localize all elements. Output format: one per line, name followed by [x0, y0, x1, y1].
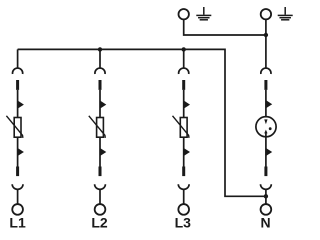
wire L1 lower [17, 137, 19, 166]
plug contact arc bottom L1 [12, 184, 23, 189]
terminal L3 circle [178, 204, 189, 215]
wire L3 drop from bus [183, 49, 185, 68]
wire N upper electrode lead [265, 90, 267, 122]
wire L2 drop from bus [99, 49, 101, 68]
wire N stem to terminal [265, 189, 267, 204]
varistor L1 box [14, 118, 21, 138]
wire L2 upper [99, 90, 101, 118]
contact pin bar bottom L3 [182, 167, 185, 177]
wire L1 drop from bus [17, 49, 19, 68]
wire L1 upper [17, 90, 19, 118]
spark gap bottom electrode arrow [264, 130, 267, 134]
node A (PE bus joins N branch) [264, 33, 268, 37]
plug contact arc top N [261, 68, 271, 74]
wire L2 stem to terminal [99, 189, 101, 204]
contact pin bar top L1 [16, 80, 19, 90]
disconnect arrow L2 upper [100, 101, 106, 109]
terminal L2 circle [95, 204, 106, 215]
wire L1 stem to terminal [17, 189, 19, 204]
spark gap top electrode arrow [264, 119, 267, 124]
disconnect arrow L1 lower [18, 148, 24, 156]
contact pin bar top L3 [182, 80, 185, 90]
wire L2 lower [99, 137, 101, 166]
wire PE1 stem to junction on N column [184, 19, 266, 35]
wire PE2 stem down into N branch [265, 19, 267, 68]
svg-text:L1: L1 [9, 214, 26, 230]
terminal L1 circle [12, 204, 23, 215]
svg-text:L3: L3 [175, 214, 192, 230]
contact pin bar bottom L1 [16, 167, 19, 177]
svg-text:N: N [260, 214, 270, 230]
spark gap gas dot [269, 127, 272, 130]
ground (earth symbol next to PE2) [278, 7, 293, 20]
wire L3 stem to terminal [183, 189, 185, 204]
terminal PE1 (top circle above L3) [179, 9, 189, 19]
disconnect arrow L1 upper [18, 101, 24, 109]
wire L3 upper [183, 90, 185, 118]
wire N lower electrode lead [265, 133, 267, 167]
spark gap (gas discharge tube) circle N [256, 117, 276, 137]
disconnect arrow N upper [266, 100, 272, 108]
disconnect arrow L3 upper [184, 101, 190, 109]
plug contact arc bottom L2 [95, 184, 106, 189]
varistor L1 diagonal [6, 116, 23, 138]
contact pin bar top N [264, 80, 267, 90]
varistor L2 diagonal [89, 116, 106, 138]
plug contact arc bottom N [261, 184, 272, 189]
wire L3 lower [183, 137, 185, 166]
varistor L3 diagonal [173, 116, 190, 138]
plug contact arc top L2 [95, 68, 105, 74]
ground (earth symbol next to PE1) [196, 7, 211, 20]
contact pin bar bottom N [264, 167, 267, 177]
disconnect arrow L2 lower [100, 148, 106, 156]
plug contact arc top L3 [179, 68, 189, 74]
varistor L3 box [180, 118, 187, 138]
terminal PE2 (top right circle above N) [261, 9, 271, 19]
plug contact arc bottom L3 [178, 184, 189, 189]
node C (bus at L3) [182, 47, 186, 51]
disconnect arrow N lower [266, 148, 272, 156]
node B (bus at L2) [98, 47, 102, 51]
svg-text:L2: L2 [91, 214, 108, 230]
wire main bus across L1 L2 L3 and down to N stem [18, 49, 266, 196]
contact pin bar bottom L2 [99, 167, 102, 177]
plug contact arc top L1 [13, 68, 23, 74]
contact pin bar top L2 [99, 80, 102, 90]
varistor L2 box [97, 118, 104, 138]
terminal N circle [261, 204, 272, 215]
node D (bus joins N stem above terminal) [264, 194, 268, 198]
disconnect arrow L3 lower [184, 148, 190, 156]
